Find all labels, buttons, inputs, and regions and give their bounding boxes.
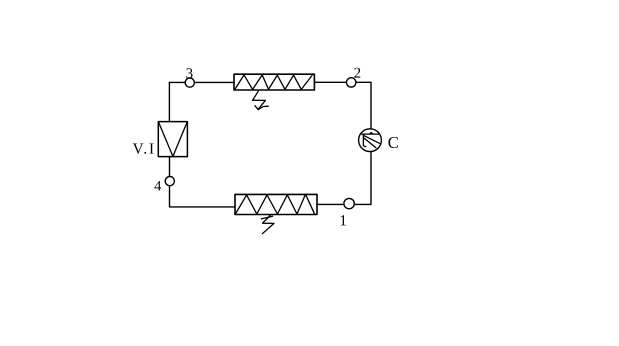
heat-flow arrow below evaporator (zigzag arrow pointing up) — [262, 215, 274, 233]
node 4 circle — [165, 177, 174, 186]
compressor internal left vertical line — [363, 134, 366, 147]
compressor arrow tick — [370, 132, 374, 134]
node 3 circle — [185, 78, 194, 87]
svg-text:1: 1 — [339, 212, 347, 229]
node 2 circle — [347, 78, 356, 87]
svg-text:3: 3 — [186, 66, 194, 82]
arrowhead of condenser heat arrow — [255, 106, 268, 110]
wire left vertical (corner to valve top) — [168, 82, 170, 121]
arrowhead of evaporator heat arrow — [261, 216, 272, 219]
evaporator coil zigzag — [235, 194, 314, 214]
node 1 circle — [344, 198, 354, 208]
expansion valve V shape — [159, 122, 188, 156]
svg-text:C: C — [388, 133, 399, 152]
condenser rectangle (top heat exchanger) — [234, 74, 314, 90]
svg-text:2: 2 — [354, 66, 362, 82]
wire top-left horizontal (node3 run) — [169, 81, 234, 83]
heat-flow arrow below condenser (zigzag arrow pointing down) — [253, 91, 266, 109]
svg-text:4: 4 — [154, 178, 162, 194]
compressor C circle — [359, 129, 382, 152]
svg-text:V.I: V.I — [133, 140, 156, 157]
compressor internal diagonal 2 — [364, 138, 376, 148]
wire valve bottom through node4 to bottom-left corner and bottom horizontal — [170, 157, 236, 207]
compressor internal diagonal 1 — [363, 135, 380, 144]
condenser coil zigzag — [235, 75, 312, 90]
wire right loop: top rect to node2 to corner, down right side, bottom to evaporator — [314, 82, 371, 204]
evaporator rectangle (bottom heat exchanger) — [235, 194, 317, 214]
compressor internal horizontal line with arrow tick — [362, 133, 379, 135]
expansion valve V.I rectangle — [158, 122, 187, 157]
